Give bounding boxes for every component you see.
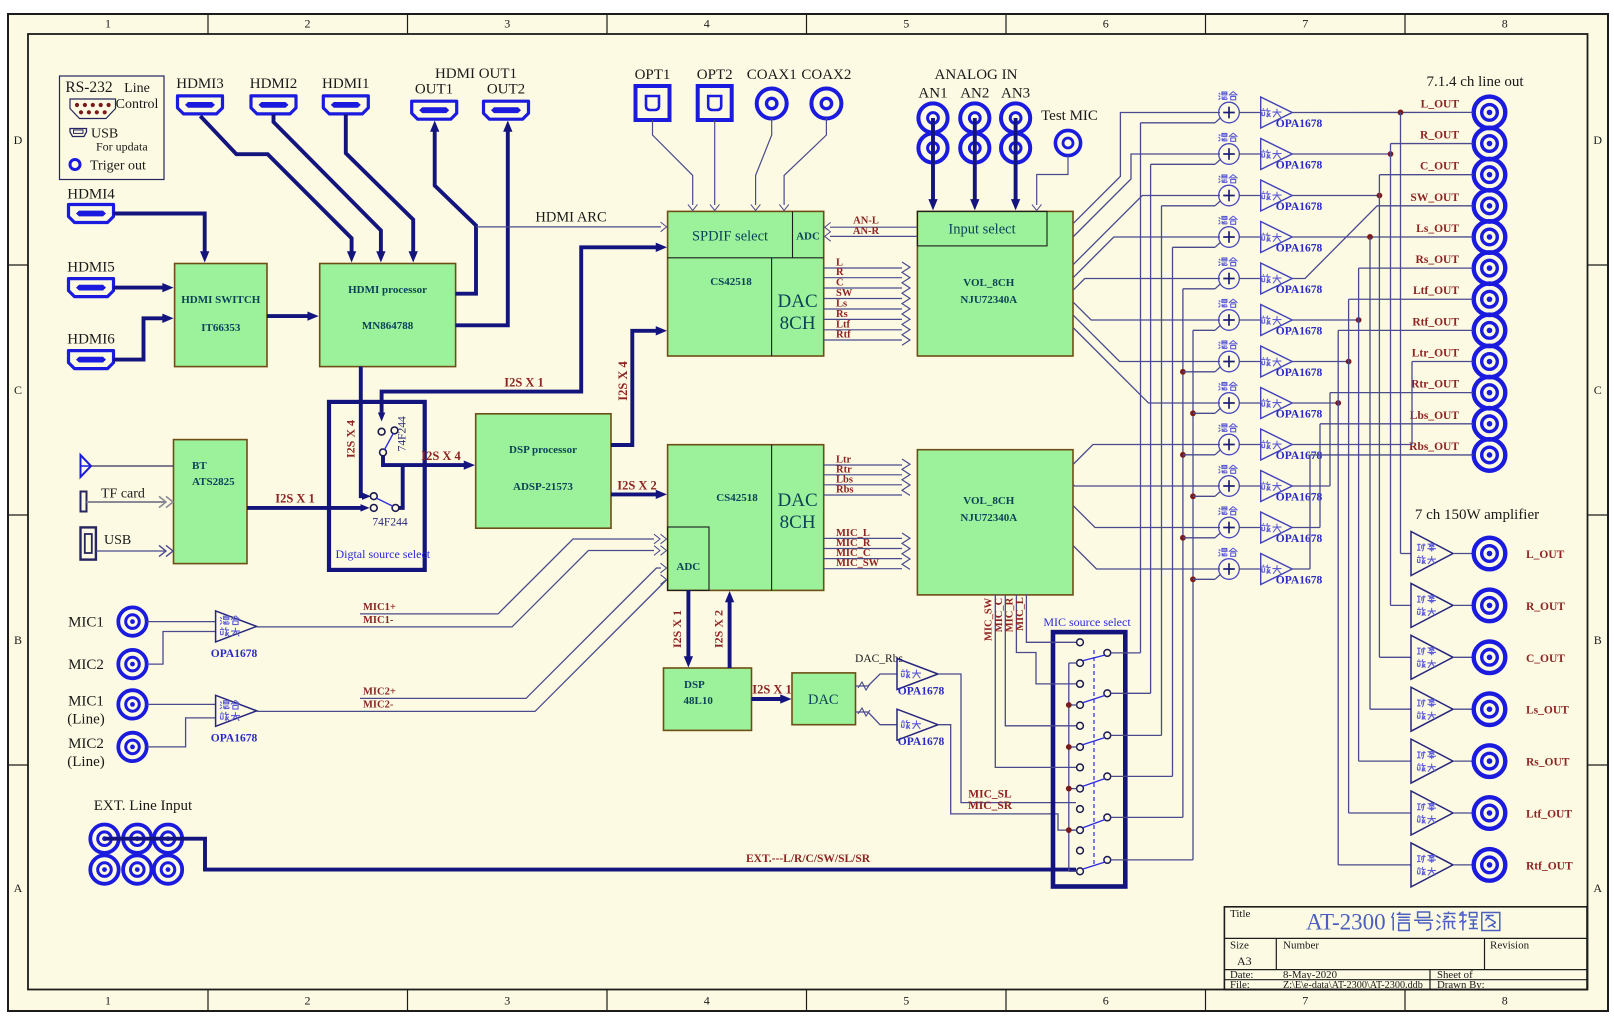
amp B1 mic mixer OPA1678 <box>216 611 257 642</box>
bus entry zigzag 3 <box>902 533 910 569</box>
mixer M3 (C) <box>1219 175 1240 206</box>
svg-text:USB: USB <box>104 533 131 548</box>
mixer M9 (Ltr) <box>1219 424 1240 455</box>
svg-text:B: B <box>14 633 22 647</box>
wire DAC to amp MIC_SR <box>856 712 898 725</box>
svg-text:OPT1: OPT1 <box>635 67 671 83</box>
wire MIC1- <box>257 551 654 627</box>
svg-text:MIC_SW: MIC_SW <box>836 558 880 569</box>
connector SW_OUT jack <box>1474 190 1506 222</box>
svg-text:I2S X 2: I2S X 2 <box>712 610 726 648</box>
svg-text:7: 7 <box>1302 994 1308 1008</box>
svg-text:MIC1-: MIC1- <box>363 615 394 626</box>
wire mixer M12 to amp C12 <box>1239 568 1260 570</box>
svg-text:C_OUT: C_OUT <box>1526 653 1565 665</box>
svg-text:R_OUT: R_OUT <box>1526 601 1565 613</box>
svg-text:C: C <box>14 383 22 397</box>
svg-text:Input select: Input select <box>948 222 1015 238</box>
svg-text:A3: A3 <box>1237 954 1252 968</box>
wire mixer M10 to amp C10 <box>1239 485 1260 487</box>
antenna BT <box>81 455 92 477</box>
svg-text:Rtr_OUT: Rtr_OUT <box>1411 379 1459 391</box>
legend trigger circle <box>70 160 80 170</box>
svg-text:MN864788: MN864788 <box>362 320 414 332</box>
mixer M11 (Lbs) <box>1219 507 1240 538</box>
svg-text:AN2: AN2 <box>960 86 989 102</box>
svg-text:OPA1678: OPA1678 <box>1276 492 1323 504</box>
mixer M7 (Ltf) <box>1219 341 1240 372</box>
connector EXT line jacks <box>90 825 182 884</box>
switch S1 74F244 top <box>378 427 398 456</box>
amp C11 OPA1678 (Lbs) <box>1261 512 1293 543</box>
amp C3 OPA1678 (C) <box>1261 180 1293 211</box>
wire amp C2 to R_OUT + tap <box>1292 144 1473 606</box>
border ruler row ticks <box>8 265 1608 765</box>
svg-text:EXT. Line Input: EXT. Line Input <box>94 798 193 814</box>
block U7 CS42518 + DAC 8CH + ADC <box>668 445 824 591</box>
wire mixer M3 to amp C3 <box>1239 195 1260 197</box>
wire power amp P2 to jack <box>1453 604 1474 606</box>
svg-text:OPA1678: OPA1678 <box>211 648 258 660</box>
svg-text:ANALOG IN: ANALOG IN <box>935 67 1018 83</box>
svg-text:7 ch 150W amplifier: 7 ch 150W amplifier <box>1415 507 1539 523</box>
wire amp C6 to Rs_OUT + tap <box>1292 268 1473 761</box>
wire ANALOG jack x1015.6 to Input select <box>1014 118 1018 204</box>
svg-text:HDMI ARC: HDMI ARC <box>535 210 606 226</box>
svg-text:Revision: Revision <box>1490 940 1530 952</box>
connector HDMI6 <box>69 351 114 369</box>
svg-text:48L10: 48L10 <box>684 695 714 707</box>
block U2 HDMI processor <box>320 264 456 367</box>
amp B2 mic mixer OPA1678 <box>216 695 257 726</box>
wire mixer M7 to amp C7 <box>1239 361 1260 363</box>
wire MIC1 Line to amp B2 <box>147 703 216 705</box>
svg-text:3: 3 <box>504 17 510 31</box>
wire mixer M2 to amp C2 <box>1239 153 1260 155</box>
wire 48L10 to DAC I2S X 1 <box>752 697 786 701</box>
switch S2 74F244 bottom <box>370 493 399 511</box>
svg-text:ADC: ADC <box>796 231 820 243</box>
title block frame <box>1224 907 1587 990</box>
connector power Rs_OUT jack <box>1474 745 1506 777</box>
connector Ltf_OUT jack <box>1474 283 1506 315</box>
switch bank gang dashed line <box>1093 650 1095 866</box>
wire DAC to amp DAC_Rbs <box>856 674 898 686</box>
svg-text:MIC2+: MIC2+ <box>363 686 396 697</box>
svg-text:AN1: AN1 <box>918 86 947 102</box>
wire COAX2 to SPDIF select <box>784 118 826 205</box>
wire Test MIC to Input select <box>1037 156 1068 205</box>
bus entry zigzag 1 <box>902 262 910 345</box>
svg-text:OPA1678: OPA1678 <box>1276 450 1323 462</box>
svg-text:Rbs_OUT: Rbs_OUT <box>1409 441 1459 453</box>
svg-text:5: 5 <box>903 17 909 31</box>
title AT-2300 signal flow diagram <box>1306 910 1500 935</box>
wire ANALOG jack x933 to Input select <box>931 118 935 204</box>
svg-text:I2S X 1: I2S X 1 <box>275 492 315 506</box>
svg-text:A: A <box>14 881 23 895</box>
wire HDMI SWITCH to HDMI processor <box>267 314 312 318</box>
wire HDMI4 to HDMI SWITCH <box>113 214 204 257</box>
mixer M12 (Rbs) <box>1219 548 1240 579</box>
svg-text:HDMI4: HDMI4 <box>67 187 115 203</box>
wire OPT1 to SPDIF select <box>653 120 693 205</box>
connector power C_OUT jack <box>1474 642 1506 674</box>
svg-text:Rs: Rs <box>836 309 848 320</box>
wire OPT2 to SPDIF select <box>714 120 716 205</box>
svg-text:8: 8 <box>1502 17 1508 31</box>
svg-text:DSP: DSP <box>684 679 705 691</box>
connector HDMI5 <box>69 279 114 297</box>
wires VOL2 outputs to mixers 9-12 <box>1074 445 1221 570</box>
wire power amp P6 to jack <box>1453 812 1474 814</box>
wire 48L10 to DAC2 I2S X 2 <box>728 597 732 668</box>
svg-text:SPDIF select: SPDIF select <box>692 229 768 245</box>
connector Rtf_OUT jack <box>1474 315 1506 347</box>
svg-text:HDMI6: HDMI6 <box>67 332 115 348</box>
wire amp C10 to Rtr_OUT <box>1292 393 1473 486</box>
svg-text:C: C <box>1594 383 1602 397</box>
wire mixer M11 to amp C11 <box>1239 527 1260 529</box>
wire power amp P1 to jack <box>1453 553 1474 555</box>
wire MIC_R vertical <box>1016 595 1076 684</box>
block U3 SPDIF select + DAC 8CH <box>668 211 824 356</box>
connector HDMI4 <box>69 205 114 223</box>
connector COAX2 <box>811 89 841 119</box>
amp C7 OPA1678 (Ltf) <box>1261 346 1293 377</box>
wire AN-R <box>830 235 917 237</box>
wire I2S X 1 SPDIF feed <box>382 247 660 415</box>
svg-text:Rtf_OUT: Rtf_OUT <box>1526 860 1573 872</box>
svg-text:OPA1678: OPA1678 <box>1276 533 1323 545</box>
svg-text:HDMI1: HDMI1 <box>322 76 370 92</box>
wire amp C8 to Rtf_OUT + tap <box>1292 330 1473 865</box>
svg-text:I2S X 4: I2S X 4 <box>616 360 630 400</box>
svg-text:2: 2 <box>305 994 311 1008</box>
power amp P1 (L_OUT) <box>1411 532 1453 576</box>
svg-text:Title: Title <box>1230 908 1251 920</box>
bus DAC2 MIC_L..MIC_SW <box>824 528 902 569</box>
svg-text:NJU72340A: NJU72340A <box>960 294 1017 306</box>
bus DAC1 to VOL1 L..Rtf <box>824 258 902 341</box>
svg-text:MIC_SR: MIC_SR <box>968 800 1013 812</box>
connector OPT2 <box>698 86 732 120</box>
amp C9 OPA1678 (Ltr) <box>1261 429 1293 460</box>
wire amp C11 to Lbs_OUT <box>1292 424 1473 528</box>
svg-text:MIC1+: MIC1+ <box>363 602 396 613</box>
connector Ltr_OUT jack <box>1474 346 1506 378</box>
mixer M1 (L) <box>1219 92 1240 123</box>
wire DSP to DAC1 I2S X 4 <box>611 331 660 445</box>
svg-text:HDMI OUT1: HDMI OUT1 <box>435 66 517 82</box>
svg-text:VOL_8CH: VOL_8CH <box>963 277 1015 289</box>
connector HDMI3 <box>178 96 223 114</box>
wire MIC1+ <box>360 539 654 614</box>
svg-text:5: 5 <box>903 994 909 1008</box>
svg-text:1: 1 <box>105 994 111 1008</box>
block U9 DSP 48L10 <box>664 668 752 730</box>
wires MIC select outputs to bundle <box>1111 653 1193 860</box>
svg-text:HDMI5: HDMI5 <box>67 260 115 276</box>
connector Lbs_OUT jack <box>1474 408 1506 440</box>
text DAC 8CH (U7) <box>778 490 818 533</box>
connector Test MIC <box>1055 130 1080 155</box>
svg-text:MIC2-: MIC2- <box>363 699 394 710</box>
svg-text:6: 6 <box>1103 17 1109 31</box>
mixer M5 (Ls) <box>1219 258 1240 289</box>
svg-text:HDMI2: HDMI2 <box>250 76 298 92</box>
svg-text:A: A <box>1593 881 1602 895</box>
label MIC2 (Line) <box>67 736 104 770</box>
connector HDMI2 <box>251 96 296 114</box>
svg-text:74F244: 74F244 <box>397 416 409 451</box>
wire amp C4 to Ls_OUT + tap <box>1292 234 1473 709</box>
svg-text:I2S X 4: I2S X 4 <box>344 420 358 458</box>
wire AN-L <box>830 226 917 228</box>
svg-text:DAC: DAC <box>808 692 839 708</box>
amp C2 OPA1678 (R) <box>1261 139 1293 170</box>
svg-text:Ls_OUT: Ls_OUT <box>1526 705 1569 717</box>
connector C_OUT jack <box>1474 159 1506 191</box>
svg-text:C: C <box>836 278 844 289</box>
bus DAC2 to VOL2 Ltr..Rbs <box>824 455 902 496</box>
svg-text:MIC source select: MIC source select <box>1043 615 1131 629</box>
wire MIC2 Line to amp B2 <box>147 718 216 747</box>
svg-text:Rbs: Rbs <box>836 485 854 496</box>
block U10 DAC <box>792 673 856 725</box>
svg-text:Number: Number <box>1283 940 1319 952</box>
wire MIC_SW vertical <box>995 595 1076 768</box>
wire amp C5 to SW_OUT <box>1292 206 1473 279</box>
svg-text:HDMI SWITCH: HDMI SWITCH <box>181 294 261 306</box>
wire HDMI5 to HDMI SWITCH <box>113 286 166 290</box>
svg-text:OPA1678: OPA1678 <box>1276 201 1323 213</box>
symbol TF card <box>81 492 87 512</box>
svg-text:C_OUT: C_OUT <box>1420 161 1459 173</box>
power amp P4 (Ls_OUT) <box>1411 687 1453 731</box>
svg-text:OPA1678: OPA1678 <box>211 733 258 745</box>
svg-text:TF card: TF card <box>101 487 145 502</box>
svg-text:Control: Control <box>116 97 159 112</box>
svg-text:File:: File: <box>1230 979 1250 991</box>
wire amp C12 to Rbs_OUT <box>1292 455 1473 569</box>
svg-text:OPA1678: OPA1678 <box>1276 326 1323 338</box>
svg-text:COAX2: COAX2 <box>801 67 851 83</box>
border ruler column ticks <box>208 14 1405 1011</box>
wire HDMI3 to HDMI processor <box>200 116 351 256</box>
svg-text:MIC2: MIC2 <box>68 736 104 752</box>
svg-text:4: 4 <box>704 17 710 31</box>
svg-text:Ls: Ls <box>836 299 847 310</box>
svg-text:7: 7 <box>1302 17 1308 31</box>
wire switch S1 out to DSP <box>383 456 468 465</box>
switch bank diagonals <box>1083 655 1105 869</box>
svg-text:CS42518: CS42518 <box>716 492 758 504</box>
block U5 BT ATS2825 <box>174 440 248 564</box>
svg-text:MIC_L: MIC_L <box>1015 597 1026 631</box>
svg-text:IT66353: IT66353 <box>201 322 241 334</box>
connector MIC1 (Line) jack <box>118 690 146 718</box>
wire amp A2 to MIC_SR <box>938 725 1076 830</box>
wire amp A1 to MIC_SL <box>938 674 1076 803</box>
amp C1 OPA1678 (L) <box>1261 97 1293 128</box>
svg-text:2: 2 <box>305 17 311 31</box>
connector R_OUT jack <box>1474 128 1506 160</box>
svg-text:AN3: AN3 <box>1001 86 1030 102</box>
wire HDMI processor to HDMI OUT1 <box>435 127 476 294</box>
connector AN3 jack pair <box>1001 103 1030 162</box>
wire EXT line bus <box>105 839 1077 870</box>
svg-text:OPA1678: OPA1678 <box>898 686 945 698</box>
power amp P5 (Rs_OUT) <box>1411 739 1453 783</box>
svg-text:HDMI processor: HDMI processor <box>348 284 427 296</box>
wire power amp P3 to jack <box>1453 656 1474 658</box>
text DAC 8CH (U3) <box>778 291 818 334</box>
svg-text:Size: Size <box>1230 940 1249 952</box>
wire mixer M4 to amp C4 <box>1239 236 1260 238</box>
wire ADC to 48L10 I2S X 1 <box>686 590 690 661</box>
wire MIC_C vertical <box>1005 595 1076 726</box>
power amp P7 (Rtf_OUT) <box>1411 843 1453 887</box>
svg-text:SW_OUT: SW_OUT <box>1410 192 1459 204</box>
svg-text:MIC_SL: MIC_SL <box>968 789 1012 801</box>
svg-text:CS42518: CS42518 <box>710 276 752 288</box>
amp A2 MIC_SR OPA1678 <box>897 709 938 740</box>
svg-text:Test MIC: Test MIC <box>1041 108 1098 124</box>
power amp P2 (R_OUT) <box>1411 583 1453 627</box>
svg-text:I2S X 1: I2S X 1 <box>752 683 792 697</box>
svg-text:Drawn By:: Drawn By: <box>1437 979 1485 991</box>
svg-text:OPA1678: OPA1678 <box>1276 160 1323 172</box>
connector AN2 jack pair <box>960 103 989 162</box>
svg-text:DAC: DAC <box>778 490 818 511</box>
svg-text:8CH: 8CH <box>780 512 816 533</box>
wire HDMI processor I2S down <box>361 367 366 497</box>
wire USB to BT <box>96 550 165 552</box>
wire MIC2 to amp B1 <box>147 632 216 665</box>
connector power Ltf_OUT jack <box>1474 797 1506 829</box>
svg-text:D: D <box>14 133 23 147</box>
svg-text:SW: SW <box>836 288 853 299</box>
svg-text:1: 1 <box>105 17 111 31</box>
svg-text:RS-232: RS-232 <box>65 79 112 96</box>
amp C4 OPA1678 (SW) <box>1261 222 1293 253</box>
wire amp C1 to L_OUT + tap <box>1292 110 1473 554</box>
svg-text:74F244: 74F244 <box>372 517 407 529</box>
connector HDMI1 <box>323 96 368 114</box>
wire amp C3 to C_OUT + tap <box>1292 175 1473 658</box>
svg-text:I2S X 1: I2S X 1 <box>504 376 544 390</box>
svg-text:ADC: ADC <box>676 561 700 573</box>
connector HDMI OUT2 <box>484 101 529 119</box>
connector L_OUT jack <box>1474 97 1506 129</box>
svg-text:OUT2: OUT2 <box>487 82 525 98</box>
connector AN1 jack pair <box>918 103 947 162</box>
svg-text:Line: Line <box>124 81 150 96</box>
block U6 DSP processor <box>476 414 611 528</box>
svg-text:MIC1: MIC1 <box>68 693 104 709</box>
border ruler row letters <box>14 133 1603 895</box>
svg-text:MIC_R: MIC_R <box>1005 597 1016 632</box>
connector MIC1 jack <box>118 607 146 635</box>
amp A1 DAC_Rbs OPA1678 <box>897 659 938 690</box>
wire MIC1 to amp B1 <box>147 621 216 623</box>
power amp P3 (C_OUT) <box>1411 635 1453 679</box>
svg-text:DAC_Rbs: DAC_Rbs <box>855 653 903 665</box>
mixer M4 (SW) <box>1219 216 1240 247</box>
svg-text:8CH: 8CH <box>780 313 816 334</box>
svg-text:6: 6 <box>1103 994 1109 1008</box>
wire DSP to DAC2 I2S X 2 <box>611 492 660 496</box>
amp C12 OPA1678 (Rbs) <box>1261 554 1293 585</box>
svg-text:BT: BT <box>192 460 207 472</box>
connector Rtr_OUT jack <box>1474 377 1506 409</box>
wires VOL1 outputs to mixers 1-8 <box>1074 113 1221 404</box>
svg-text:COAX1: COAX1 <box>747 67 797 83</box>
wire HDMI processor to HDMI OUT2 <box>456 127 508 325</box>
svg-text:VOL_8CH: VOL_8CH <box>963 495 1015 507</box>
svg-text:Rs_OUT: Rs_OUT <box>1526 757 1570 769</box>
amp C8 OPA1678 (Rtf) <box>1261 388 1293 419</box>
amp C10 OPA1678 (Rtr) <box>1261 471 1293 502</box>
wires bundle verticals to mixer second inputs <box>1141 118 1221 860</box>
svg-text:B: B <box>1594 633 1602 647</box>
svg-text:MIC2: MIC2 <box>68 657 104 673</box>
svg-text:R_OUT: R_OUT <box>1420 130 1459 142</box>
power amp P6 (Ltf_OUT) <box>1411 791 1453 835</box>
svg-text:Ltf_OUT: Ltf_OUT <box>1526 809 1572 821</box>
label MIC1 (Line) <box>67 693 104 727</box>
amp C5 OPA1678 (Ls) <box>1261 263 1293 294</box>
wire mixer M1 to amp C1 <box>1239 112 1260 114</box>
switch bank MIC source select circles <box>1077 639 1111 875</box>
wire COAX1 to SPDIF select <box>756 118 772 205</box>
connector MIC2 jack <box>118 650 146 678</box>
block U1 HDMI SWITCH <box>175 264 267 367</box>
svg-text:Ltr_OUT: Ltr_OUT <box>1412 348 1460 360</box>
legend USB symbol <box>70 129 87 137</box>
svg-text:AT-2300: AT-2300 <box>1306 910 1386 935</box>
wire mixer M5 to amp C5 <box>1239 278 1260 280</box>
svg-text:Rs_OUT: Rs_OUT <box>1416 254 1460 266</box>
mixer M10 (Rtr) <box>1219 465 1240 496</box>
wire HDMI6 to HDMI SWITCH <box>113 318 166 359</box>
svg-text:OPA1678: OPA1678 <box>1276 284 1323 296</box>
wire amp C7 to Ltf_OUT + tap <box>1292 299 1473 813</box>
box Digtal source select <box>329 402 425 570</box>
svg-text:MIC_C: MIC_C <box>994 598 1005 632</box>
wire MIC_L vertical <box>1026 595 1076 642</box>
wire HDMI1 to HDMI processor <box>346 114 413 256</box>
svg-text:Ltf_OUT: Ltf_OUT <box>1413 285 1459 297</box>
connector Rs_OUT jack <box>1474 252 1506 284</box>
wire amp C9 to Ltr_OUT <box>1292 362 1473 445</box>
wire MIC2+ <box>360 568 661 698</box>
mixer M8 (Rtf) <box>1219 382 1240 413</box>
connector Ls_OUT jack <box>1474 221 1506 253</box>
svg-text:OPA1678: OPA1678 <box>1276 409 1323 421</box>
svg-text:Z:\E\e-data\AT-2300\AT-2300.dd: Z:\E\e-data\AT-2300\AT-2300.ddb <box>1283 980 1423 991</box>
svg-text:(Line): (Line) <box>67 711 104 727</box>
legend text Line Control <box>116 81 159 112</box>
amp C6 OPA1678 (Rs) <box>1261 305 1293 336</box>
svg-text:HDMI3: HDMI3 <box>176 76 224 92</box>
wire antenna to BT <box>91 465 174 467</box>
svg-text:Ls_OUT: Ls_OUT <box>1416 223 1459 235</box>
connector COAX1 <box>757 89 787 119</box>
svg-text:For updata: For updata <box>96 140 148 154</box>
connector power Rtf_OUT jack <box>1474 849 1506 881</box>
